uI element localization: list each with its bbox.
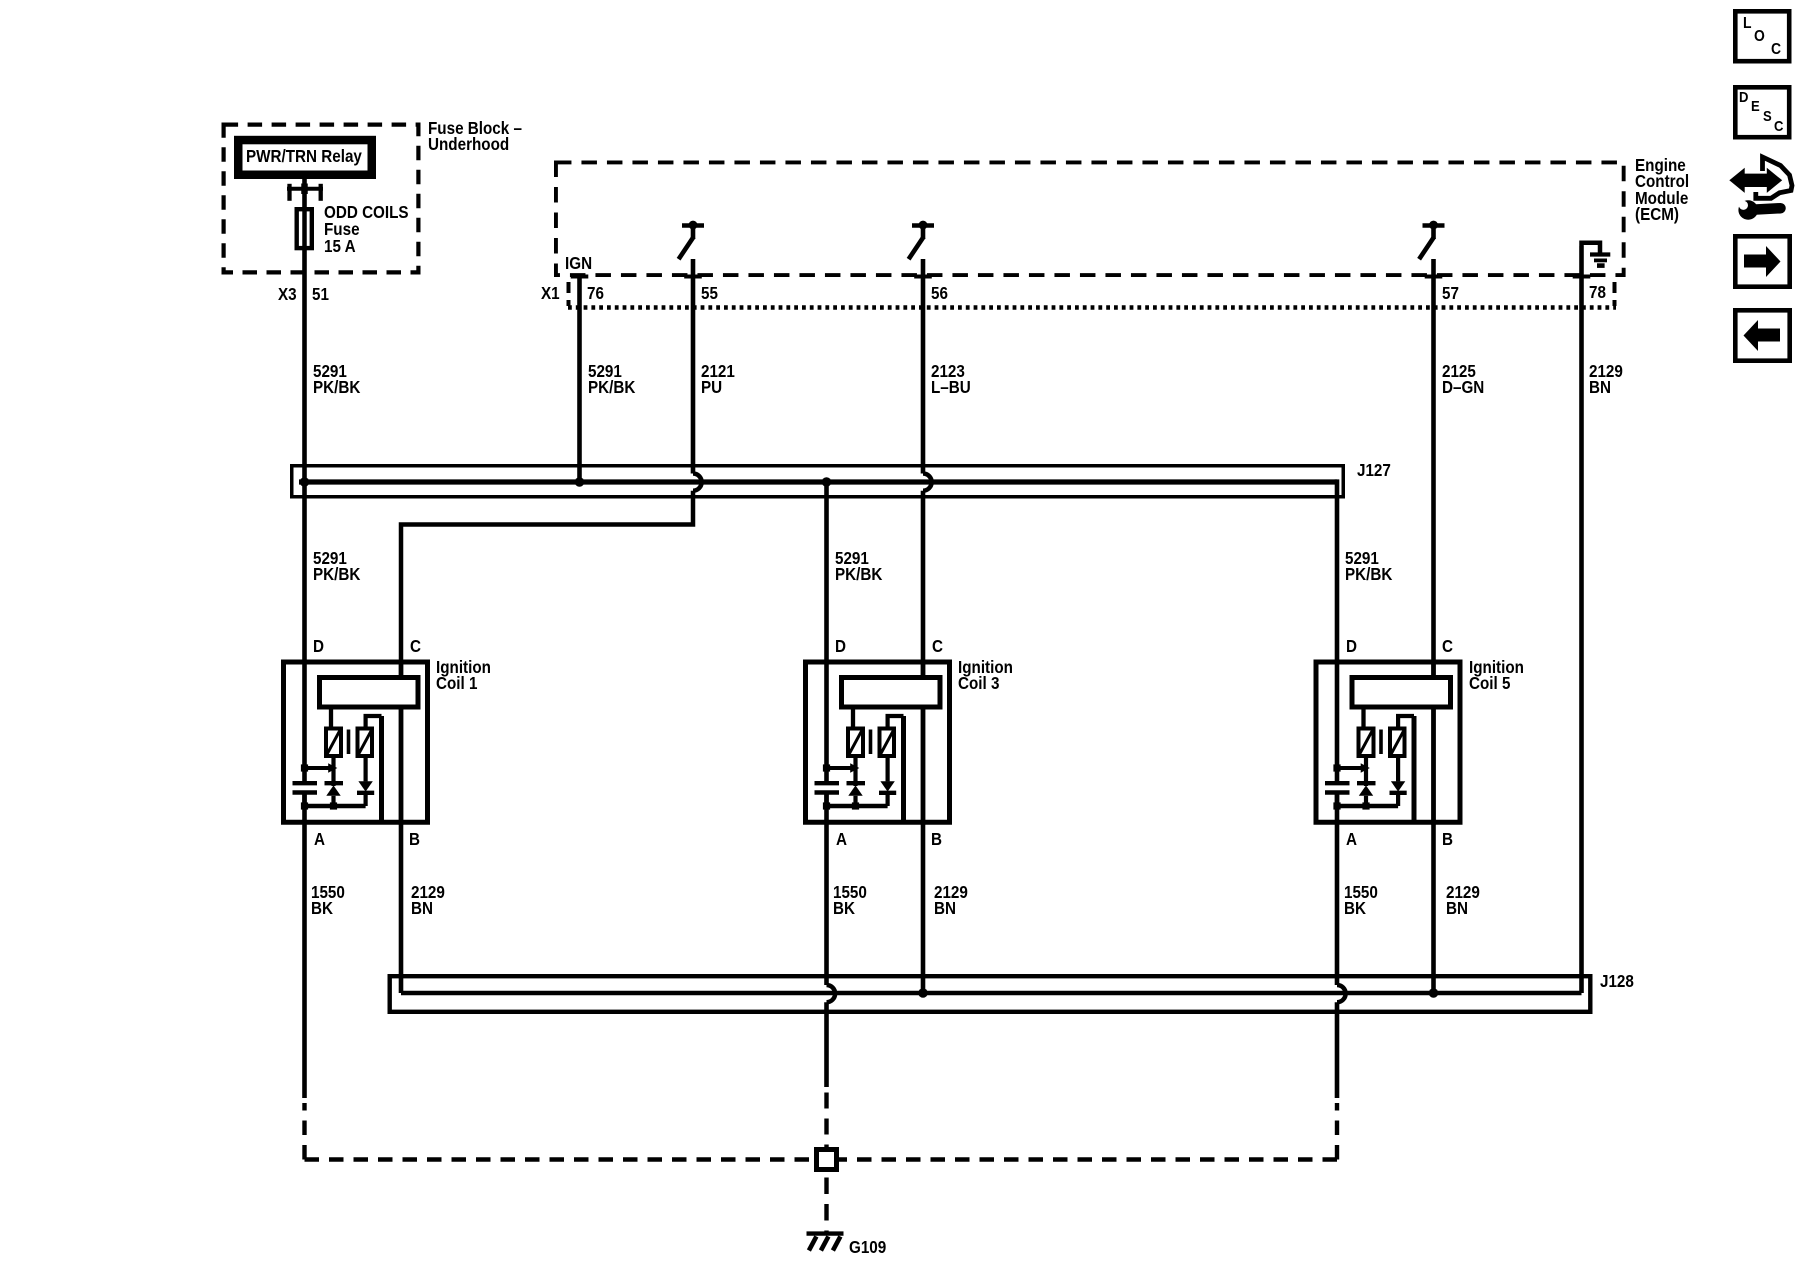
coil 5 internal ground bus <box>1337 804 1398 808</box>
wire 2125 D-GN (pin 57 to coil5 C) <box>1431 259 1436 677</box>
junction dot (coil3 B at J128) <box>918 988 928 998</box>
ECM internal ground pin 78 <box>1582 243 1601 255</box>
coil 1 pin label C <box>410 638 421 654</box>
coil 3 winding tap lead <box>851 710 855 729</box>
coil 5 transistor 1 <box>1359 729 1374 757</box>
ignition coil 3 outer box <box>806 662 950 822</box>
wire label 5291 PK/BK (coil5) <box>1345 550 1392 582</box>
coil 3 diode 2 lower lead <box>885 793 889 806</box>
pin label 76 <box>587 285 604 301</box>
coil 1 diode 2 lower lead <box>364 793 368 806</box>
coil 1 diode 1 lead <box>331 758 335 786</box>
pin label 78 <box>1589 284 1606 300</box>
coil 3 junction dot bus diode <box>852 802 859 809</box>
coil 5 trigger arrow <box>1337 766 1361 770</box>
fuse block - underhood (dashed outline) <box>224 125 419 273</box>
wire 2129 BN (coil5 B to J128 bus) <box>1431 708 1436 993</box>
hop of wire 2121 over J127 bus <box>693 474 702 491</box>
hop of coil3 ground over J128 bus <box>827 985 836 1002</box>
label 51 <box>312 286 329 302</box>
coil 1 C lead into winding <box>399 660 404 678</box>
coil 3 pin label A <box>836 831 847 847</box>
coil 3 diode 2 (down) <box>880 781 894 791</box>
coil 3 pin label B <box>931 831 942 847</box>
coil 3 diode 2 lead <box>885 758 889 781</box>
pin tick <box>571 275 589 279</box>
label Fuse Block - Underhood <box>428 120 522 152</box>
label X3 <box>278 286 297 302</box>
ECM low-side driver pin 55 <box>682 223 704 228</box>
wire label 5291 PK/BK (fuse) <box>313 363 360 395</box>
coil 3 pin label C <box>932 638 943 654</box>
wire 1550 BK (coil3 A below J128) <box>824 1002 829 1087</box>
coil 5 junction dot D node <box>1333 764 1340 771</box>
wire label 2129 BN (coil3) <box>934 884 968 916</box>
coil 1 diode 1 (up) <box>325 781 344 785</box>
pin tick <box>1573 275 1591 279</box>
LOC button box <box>1735 11 1789 61</box>
coil 5 winding tap lead <box>1361 710 1365 729</box>
coil 3 junction dot D node <box>823 764 830 771</box>
LOC letter O <box>1754 29 1765 45</box>
wire 2129 BN (coil1 B to J128 bus) <box>399 708 404 993</box>
label Ignition Coil 1 <box>436 659 491 691</box>
J128 bus bar <box>401 991 1582 996</box>
J127 bus bar <box>299 479 1337 484</box>
coil 5 diode 1 lead <box>1364 758 1368 786</box>
DESC button box <box>1735 87 1789 137</box>
junction dot (coil3 feed at J127) <box>822 477 832 487</box>
splice pack J128 box <box>390 976 1591 1012</box>
dashed ground wire (splice to G109) <box>824 1178 828 1233</box>
coil 5 secondary line <box>1412 716 1417 822</box>
dashed ground wire (coil3 A to splice) <box>824 1093 828 1148</box>
LOC letter C <box>1771 42 1781 58</box>
label Ignition Coil 5 <box>1469 659 1524 691</box>
coil 5 pin label C <box>1442 638 1453 654</box>
label IGN <box>565 255 592 271</box>
ground splice node (square) <box>817 1150 837 1170</box>
dashed ground wire (coil1 A lower) <box>302 1103 306 1160</box>
pin tick <box>1425 275 1443 279</box>
coil 3 diode 1 (up) <box>847 781 866 785</box>
label J127 <box>1357 462 1391 478</box>
wire 2129 BN (coil3 B to J128 bus) <box>921 708 926 993</box>
dashed ground rail left <box>305 1157 815 1161</box>
wire label 2129 BN (coil5) <box>1446 884 1480 916</box>
label Engine Control Module (ECM) <box>1635 157 1689 223</box>
coil 5 transistor2 top connector <box>1398 716 1414 728</box>
wire 1550 BK (coil5 A below J128) <box>1335 1002 1340 1098</box>
coil 5 pin label A <box>1346 831 1357 847</box>
coil 5 primary winding <box>1352 678 1451 708</box>
coil 5 diode 2 lower lead <box>1396 793 1400 806</box>
coil 3 B lead from winding <box>921 708 926 825</box>
wire label 1550 BK (coil5) <box>1344 884 1378 916</box>
coil 5 gate bar <box>1379 730 1383 755</box>
ground symbol bars (pin 78) <box>1590 252 1610 256</box>
wire label 2129 BN (pin78) <box>1589 363 1623 395</box>
coil 3 diode 1 lower lead <box>853 796 857 806</box>
fuse holder clip <box>287 187 323 191</box>
coil 1 capacitor lower lead <box>302 795 307 807</box>
wire fuse element <box>302 207 307 250</box>
coil 3 diode 1 lead <box>853 758 857 786</box>
wire 2123 L-BU (pin 56 to J127 hop) <box>921 259 926 474</box>
coil 5 C lead into winding <box>1431 660 1436 678</box>
coil 5 diode 1 lower lead <box>1364 796 1368 806</box>
service icon hook outline <box>1756 157 1792 198</box>
coil 1 B lead from winding <box>399 708 404 825</box>
coil 1 transistor 1 <box>326 729 341 757</box>
hop of coil5 ground over J128 bus <box>1337 985 1346 1002</box>
coil 3 transistor 1 <box>848 729 863 757</box>
coil 5 pin label D <box>1346 638 1357 654</box>
coil 5 junction dot bus left <box>1333 802 1340 809</box>
coil 3 gate bar <box>869 730 873 755</box>
coil 5 pin label B <box>1442 831 1453 847</box>
pin label 56 <box>931 285 948 301</box>
splice pack J127 box <box>292 466 1344 497</box>
wire 5291 PK/BK (J127 bus end to coil5 D) <box>1335 479 1340 781</box>
coil 3 transistor 2 <box>880 729 895 757</box>
wire label 1550 BK (coil1) <box>311 884 345 916</box>
DESC letter S <box>1763 109 1772 125</box>
wire label 5291 PK/BK (coil1) <box>313 550 360 582</box>
X1 connector strip dotted line <box>568 305 1616 309</box>
coil 1 transistor2 top connector <box>366 716 382 728</box>
hop of wire 2123 over J127 bus <box>923 474 932 491</box>
label G109 <box>849 1239 886 1255</box>
wire relay to fuse (5291) <box>302 179 307 207</box>
wire label 5291 PK/BK (coil3) <box>835 550 882 582</box>
wire 5291 PK/BK (IGN pin 76 to J127 bus) <box>577 277 582 483</box>
coil 1 gate bar <box>347 730 351 755</box>
wire label 2129 BN (coil1) <box>411 884 445 916</box>
wire 1550 BK (coil3 A down) <box>824 795 829 986</box>
coil 1 junction dot bus left <box>301 802 308 809</box>
service icon wrench <box>1738 200 1758 220</box>
junction dot (coil5 B at J128) <box>1429 988 1439 998</box>
ignition coil 1 outer box <box>284 662 428 822</box>
dashed ground rail right <box>839 1157 1337 1161</box>
wire 1550 BK (coil5 A down) <box>1335 795 1340 986</box>
coil 1 diode 1 lower lead <box>331 796 335 806</box>
relay PWR/TRN Relay (bold box) <box>238 140 372 175</box>
pin tick <box>914 275 932 279</box>
next page arrow button <box>1735 236 1789 286</box>
coil 5 diode 1 (up) <box>1357 781 1376 785</box>
wire 2121 PU (pin 55 down to J127 hop) <box>691 259 696 474</box>
coil 1 pin label D <box>313 638 324 654</box>
coil 1 secondary line <box>379 716 384 822</box>
engine control module ECM (dashed outline) <box>556 162 1624 275</box>
coil 1 capacitor <box>293 781 318 785</box>
ground symbol G109 <box>807 1231 844 1235</box>
label Ignition Coil 3 <box>958 659 1013 691</box>
coil 1 junction dot D node <box>301 764 308 771</box>
coil 5 transistor 2 <box>1390 729 1405 757</box>
label PWR/TRN Relay <box>246 148 362 164</box>
coil 1 internal ground bus <box>305 804 366 808</box>
coil 1 diode 2 lead <box>364 758 368 781</box>
coil 1 junction dot bus diode <box>330 802 337 809</box>
wire 1550 BK (coil1 A down) <box>302 795 307 1099</box>
coil 1 primary winding <box>320 678 419 708</box>
coil 1 transistor 2 <box>358 729 373 757</box>
wire 2129 BN (pin 78 down to J128 bus) <box>1579 246 1584 993</box>
wire label 5291 PK/BK (pin76) <box>588 363 635 395</box>
coil 5 diode 2 lead <box>1396 758 1400 781</box>
junction dot (wire 51 at J127) <box>300 477 310 487</box>
ECM low-side driver pin 57 <box>1423 223 1445 228</box>
coil 5 B lead from winding <box>1431 708 1436 825</box>
coil 3 junction dot bus left <box>823 802 830 809</box>
coil 3 internal ground bus <box>827 804 888 808</box>
label ODD COILS Fuse 15 A <box>324 204 409 254</box>
DESC letter D <box>1739 90 1748 106</box>
coil 3 capacitor lower lead <box>824 795 829 807</box>
LOC letter L <box>1743 16 1752 32</box>
wire label 2125 D-GN <box>1442 363 1484 395</box>
coil 3 pin label D <box>835 638 846 654</box>
coil 5 diode 2 (down) <box>1391 781 1405 791</box>
coil 3 primary winding <box>842 678 941 708</box>
coil 3 capacitor <box>815 781 840 785</box>
label X1 <box>541 285 560 301</box>
wire label 2123 L-BU <box>931 363 971 395</box>
DESC letter E <box>1751 99 1760 115</box>
ECM low-side driver pin 56 <box>912 223 934 228</box>
pin tick <box>684 275 702 279</box>
coil 5 capacitor <box>1325 781 1350 785</box>
wire 5291 PK/BK (fuse 51 down through J127 to coil1 D) <box>302 250 307 781</box>
X1 connector left dash <box>567 282 571 306</box>
coil 1 diode 2 (down) <box>358 781 372 791</box>
coil 5 capacitor lower lead <box>1335 795 1340 807</box>
wire 2123 L-BU (to coil3 C) <box>921 491 926 677</box>
coil 1 pin label B <box>409 831 420 847</box>
coil 1 trigger arrow <box>305 766 329 770</box>
coil 3 trigger arrow <box>827 766 851 770</box>
wire 2121 PU (below J127, jog left to coil1 C) <box>401 491 693 677</box>
pin label 55 <box>701 285 718 301</box>
dashed ground wire (coil5 A lower) <box>1335 1103 1339 1160</box>
X1 connector right dash <box>1613 282 1617 306</box>
DESC letter C <box>1774 119 1783 135</box>
wire label 1550 BK (coil3) <box>833 884 867 916</box>
pin label 57 <box>1442 285 1459 301</box>
ignition coil 5 outer box <box>1316 662 1460 822</box>
coil 1 pin label A <box>314 831 325 847</box>
junction dot (pin 76 wire at J127) <box>575 477 585 487</box>
label J128 <box>1600 973 1634 989</box>
wire label 2121 PU <box>701 363 735 395</box>
coil 5 junction dot bus diode <box>1362 802 1369 809</box>
coil 3 C lead into winding <box>921 660 926 678</box>
previous page arrow button <box>1735 310 1789 360</box>
coil 3 transistor2 top connector <box>888 716 904 728</box>
coil 3 secondary line <box>901 716 906 822</box>
coil 1 winding tap lead <box>329 710 333 729</box>
service icon double arrow <box>1732 171 1780 189</box>
fuse ODD COILS 15 A <box>297 209 312 248</box>
wire 5291 PK/BK (J127 to coil3 D) <box>824 482 829 781</box>
